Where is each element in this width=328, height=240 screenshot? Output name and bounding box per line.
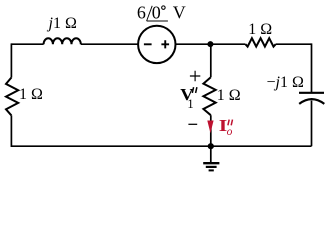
- svg-text:0: 0: [152, 3, 161, 23]
- node dot bottom junction: [208, 143, 214, 149]
- source plus sign: [161, 40, 169, 48]
- voltage source U1 circle: [138, 26, 175, 63]
- svg-text:1 Ω: 1 Ω: [19, 86, 43, 103]
- polarity plus sign above V1: [190, 71, 200, 81]
- svg-text:−j1 Ω: −j1 Ω: [267, 74, 304, 91]
- wire left vertical upper: [10, 43, 12, 77]
- wire top-left segment: [11, 43, 43, 45]
- label V1 double-prime: [180, 85, 197, 111]
- svg-text:1 Ω: 1 Ω: [248, 21, 272, 38]
- svg-text:1: 1: [187, 97, 193, 111]
- capacitor -j1 ohm top plate: [299, 92, 324, 94]
- resistor 1 ohm middle zigzag: [203, 77, 215, 115]
- ground symbol bars: [203, 163, 219, 170]
- wire middle branch upper: [210, 44, 212, 77]
- wire right vertical upper: [311, 43, 313, 92]
- svg-text:1 Ω: 1 Ω: [217, 87, 241, 104]
- wire source to top-right resistor: [176, 43, 246, 45]
- label Io double-prime red: [219, 118, 233, 139]
- resistor 1 ohm top right zigzag: [245, 38, 275, 46]
- ground stub wire: [210, 146, 212, 163]
- polarity minus sign below V1: [188, 123, 197, 125]
- svg-text:o: o: [227, 126, 233, 138]
- wire right vertical lower: [311, 101, 313, 147]
- node dot top junction: [207, 41, 213, 47]
- capacitor -j1 ohm bottom curved plate: [299, 99, 324, 104]
- svg-text:V: V: [173, 3, 186, 23]
- label 6 angle 0 V source value: [137, 3, 186, 23]
- current arrow Io red: [207, 121, 213, 134]
- svg-text:j1 Ω: j1 Ω: [47, 15, 77, 32]
- resistor 1 ohm left zigzag: [6, 78, 18, 116]
- wire bottom: [11, 145, 311, 147]
- wire left vertical lower: [10, 115, 12, 147]
- wire middle branch lower: [210, 115, 212, 146]
- source minus sign: [144, 43, 152, 45]
- inductor j1 ohm: [44, 38, 81, 44]
- wire inductor to source: [81, 43, 138, 45]
- wire resistor to top-right corner: [276, 43, 312, 45]
- svg-text:6: 6: [137, 3, 146, 23]
